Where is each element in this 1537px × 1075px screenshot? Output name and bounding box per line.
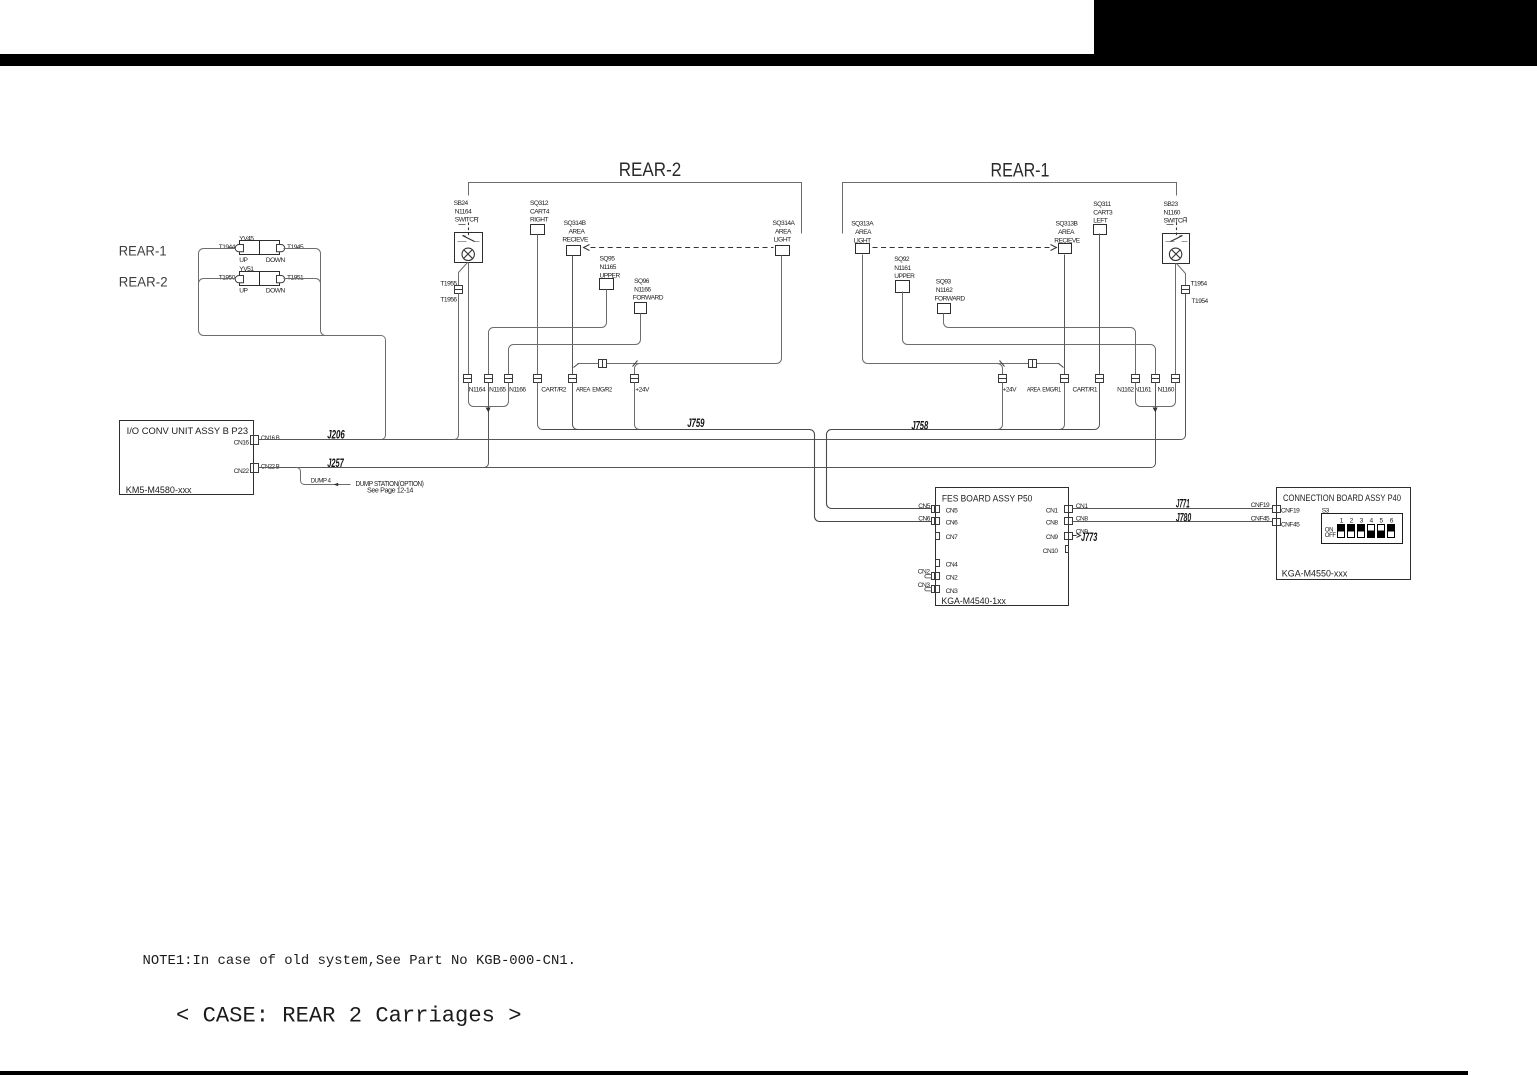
- wire SQ313A link to RECIEVE junction REAR-1: [863, 255, 1060, 364]
- wire AREA EMG/R2 to J759: [573, 383, 578, 430]
- svg-text:SQ92: SQ92: [894, 256, 910, 263]
- wire N1166 merge: [489, 383, 509, 407]
- I/O CONV UNIT ASSY B P23 box: [120, 421, 254, 495]
- wire SQ311 to CART/R1: [1099, 234, 1101, 376]
- connector +24V REAR-2: [631, 375, 639, 383]
- svg-text:CN7: CN7: [946, 534, 959, 541]
- svg-text:FORWARD: FORWARD: [935, 295, 966, 302]
- svg-text:SB24: SB24: [454, 200, 469, 207]
- svg-text:J773: J773: [1081, 530, 1098, 544]
- svg-text:CNF19: CNF19: [1281, 508, 1300, 515]
- solenoid valve YV51: [235, 271, 285, 286]
- svg-text:+24V: +24V: [1003, 386, 1018, 393]
- svg-text:CART/R2: CART/R2: [541, 386, 566, 393]
- svg-text:CN16: CN16: [234, 439, 250, 446]
- svg-text:AREA EMG/R2: AREA EMG/R2: [576, 386, 613, 393]
- svg-text:CN1: CN1: [1046, 507, 1059, 514]
- connector N1165: [485, 375, 493, 383]
- svg-text:UPPER: UPPER: [894, 273, 915, 280]
- connector N1166: [505, 375, 513, 383]
- sensor SQ96 box: [635, 303, 647, 314]
- wire T1951 join right rail: [284, 279, 321, 284]
- svg-text:T1954: T1954: [1191, 280, 1208, 287]
- svg-text:J759: J759: [687, 416, 705, 430]
- svg-text:LIGHT: LIGHT: [774, 237, 791, 244]
- dip switch S3 box: [1322, 514, 1403, 544]
- FES BOARD ASSY P50 box: [936, 488, 1069, 606]
- svg-text:CN10: CN10: [1043, 548, 1059, 555]
- svg-text:DUMP 4: DUMP 4: [311, 478, 332, 485]
- svg-text:< CASE: REAR 2 Carriages >: < CASE: REAR 2 Carriages >: [176, 1004, 522, 1029]
- svg-text:N1164: N1164: [455, 208, 472, 215]
- svg-text:SQ314B: SQ314B: [564, 220, 587, 227]
- connector N1160: [1172, 375, 1180, 383]
- wire SQ95 to N1165: [489, 290, 607, 376]
- svg-text:LEFT: LEFT: [1093, 218, 1108, 225]
- wire T1956 to J206: [454, 294, 459, 440]
- dip switch 4 (OFF): [1368, 525, 1375, 538]
- sensor SQ311 box: [1094, 225, 1107, 235]
- arrow merge REAR-1: [1153, 408, 1158, 413]
- svg-text:SQ96: SQ96: [634, 278, 650, 285]
- svg-text:CN6: CN6: [918, 516, 931, 523]
- stub arrow CN9: [1073, 534, 1081, 538]
- svg-text:N1166: N1166: [509, 386, 526, 393]
- sensor SQ93 box: [938, 304, 951, 314]
- connector CN8: [1065, 518, 1073, 525]
- svg-text:KGA-M4540-1xx: KGA-M4540-1xx: [941, 596, 1006, 606]
- svg-text:J758: J758: [911, 419, 928, 433]
- svg-text:YV45: YV45: [239, 235, 254, 242]
- wire SQ92 to N1161: [903, 292, 1156, 376]
- svg-text:CN3: CN3: [946, 588, 959, 595]
- dip switch 2 (ON): [1348, 525, 1355, 538]
- svg-text:DOWN: DOWN: [266, 288, 286, 295]
- svg-text:CN4: CN4: [946, 561, 959, 568]
- svg-text:N1160: N1160: [1164, 209, 1181, 216]
- switch-lamp SB24 box: [455, 233, 483, 263]
- wire SQ312 to CART/R2: [537, 235, 539, 376]
- connector N1162: [1132, 375, 1140, 383]
- svg-text:CART/R1: CART/R1: [1073, 386, 1098, 393]
- svg-text:NOTE1:In case of old system,Se: NOTE1:In case of old system,See Part No …: [143, 954, 577, 969]
- svg-text:See Page 12-14: See Page 12-14: [367, 488, 414, 495]
- svg-text:N1165: N1165: [600, 264, 617, 271]
- wire +24V to J758: [998, 383, 1003, 430]
- svg-text:N1162: N1162: [1117, 386, 1134, 393]
- svg-text:J771: J771: [1176, 497, 1190, 511]
- svg-text:SQ93: SQ93: [936, 278, 952, 285]
- connector CN7: [936, 533, 940, 540]
- svg-text:SQ314A: SQ314A: [773, 220, 796, 227]
- sensor SQ95 box: [600, 279, 614, 290]
- wire dump station branch: [297, 468, 351, 485]
- connector CN3: [932, 586, 940, 593]
- connector AREA EMG/R2: [569, 375, 577, 383]
- dashed optical link REAR-1: [873, 247, 1051, 249]
- connector CART/R2: [534, 375, 542, 383]
- sensor SQ92 box: [896, 281, 910, 293]
- connector AREA EMG/R1: [1061, 375, 1069, 383]
- arrow link end REAR-1: [1059, 364, 1064, 368]
- svg-text:CN1: CN1: [1076, 503, 1089, 510]
- sensor SQ313B box: [1059, 244, 1072, 254]
- svg-text:AREA: AREA: [569, 228, 586, 235]
- svg-text:AREA: AREA: [855, 229, 872, 236]
- sensor SQ312 box: [531, 225, 545, 235]
- svg-text:SB23: SB23: [1164, 201, 1179, 208]
- svg-text:N1166: N1166: [634, 286, 651, 293]
- wire N1162 merge: [1136, 383, 1156, 407]
- svg-text:AREA EMG/R1: AREA EMG/R1: [1027, 386, 1061, 393]
- arrow merge REAR-2: [486, 408, 491, 413]
- svg-text:N1162: N1162: [936, 287, 953, 294]
- dip switch 3 (ON): [1358, 525, 1365, 538]
- dip numbers 1-6: [1340, 518, 1394, 525]
- dip switch 1 (ON): [1338, 525, 1345, 538]
- svg-text:YV51: YV51: [239, 266, 254, 273]
- connector CN2: [932, 573, 940, 580]
- switch SB23 contacts: [1166, 241, 1188, 243]
- connector CN22: [251, 464, 259, 473]
- svg-text:CN6: CN6: [946, 520, 959, 527]
- stub plug CN2: [925, 575, 932, 578]
- svg-text:CART4: CART4: [530, 208, 550, 215]
- svg-text:UP: UP: [239, 288, 248, 295]
- svg-text:I/O CONV UNIT ASSY B P23: I/O CONV UNIT ASSY B P23: [127, 426, 249, 436]
- svg-text:+24V: +24V: [635, 386, 650, 393]
- wire N1164 merge: [469, 383, 489, 407]
- svg-text:T1956: T1956: [440, 297, 457, 304]
- connector CN5: [932, 506, 940, 513]
- dip switch 6 (ON): [1388, 525, 1395, 538]
- wire +24V drop REAR-1: [998, 364, 1003, 376]
- svg-text:OFF: OFF: [1325, 532, 1336, 539]
- dip switch 5 (OFF): [1378, 525, 1385, 538]
- connector CART/R1: [1096, 375, 1104, 383]
- svg-text:CONNECTION BOARD ASSY P40: CONNECTION BOARD ASSY P40: [1283, 493, 1401, 503]
- arrow +24V drop REAR-1: [1000, 361, 1005, 367]
- svg-text:CN9: CN9: [1046, 534, 1059, 541]
- arrow link end REAR-2: [574, 364, 579, 368]
- arrow optical link REAR-1: [1051, 245, 1057, 251]
- svg-text:KGA-M4550-xxx: KGA-M4550-xxx: [1282, 569, 1348, 579]
- svg-text:SWITCH: SWITCH: [1164, 218, 1188, 225]
- svg-text:CN22: CN22: [234, 468, 250, 475]
- svg-text:CNF45: CNF45: [1251, 515, 1270, 522]
- switch SB23 leader marks: [1167, 218, 1187, 225]
- wire T1950 join left rail: [199, 279, 236, 284]
- arrow +24V drop REAR-2: [633, 361, 638, 367]
- svg-text:T1944: T1944: [219, 244, 236, 251]
- svg-text:T1950: T1950: [219, 274, 236, 281]
- svg-text:KM5-M4580-xxx: KM5-M4580-xxx: [126, 485, 192, 495]
- wire +24V to J759: [635, 383, 640, 430]
- connector pair T1955/T1956: [455, 286, 463, 294]
- sensor SQ314B box: [567, 246, 581, 256]
- wire SB23 to T1954: [1177, 264, 1186, 286]
- bracket REAR-1: [843, 183, 1177, 234]
- svg-text:REAR-2: REAR-2: [619, 159, 682, 181]
- svg-text:REAR-2: REAR-2: [119, 275, 168, 290]
- switch SB24 blade: [463, 236, 475, 242]
- svg-text:RECIEVE: RECIEVE: [562, 237, 589, 244]
- switch SB23 control dashed line: [1176, 223, 1178, 238]
- svg-text:SQ312: SQ312: [530, 200, 549, 207]
- arrow optical link REAR-2: [584, 245, 590, 251]
- svg-text:SQ311: SQ311: [1093, 201, 1111, 208]
- connector CN16: [251, 436, 259, 445]
- wire N1161 group to J257 end: [1155, 383, 1157, 412]
- lamp SB23: [1169, 248, 1181, 260]
- connector N1161: [1152, 375, 1160, 383]
- wire J771 run: [1073, 508, 1273, 510]
- connector +24V REAR-1: [999, 375, 1007, 383]
- svg-text:DOWN: DOWN: [266, 257, 286, 264]
- arrow dump branch: [334, 483, 339, 487]
- footer black bar: [0, 1071, 1468, 1075]
- svg-text:CNF45: CNF45: [1281, 521, 1300, 528]
- svg-text:FORWARD: FORWARD: [633, 295, 664, 302]
- wire SQ314B to AREA EMG/R2: [572, 256, 574, 376]
- wire N1165 group to J257: [484, 383, 489, 468]
- switch SB23 blade: [1171, 236, 1183, 242]
- svg-text:CN5: CN5: [946, 507, 959, 514]
- wire SQ313B to AREA EMG/R1: [1064, 255, 1066, 376]
- switch-lamp SB23 box: [1163, 234, 1190, 264]
- wire SQ314A link to RECIEVE junction: [578, 256, 782, 364]
- wire SQ96 to N1166: [509, 314, 641, 376]
- wire SB24 to T1955: [459, 263, 468, 286]
- svg-text:REAR-1: REAR-1: [119, 244, 167, 259]
- connector pair T1954/T1954: [1182, 286, 1190, 294]
- connector CN9: [1065, 533, 1073, 540]
- svg-text:J257: J257: [327, 456, 344, 470]
- connector CNF19: [1273, 506, 1281, 513]
- header black bar: [0, 54, 1537, 66]
- wire CART/R2 to J759: [538, 383, 543, 430]
- svg-text:T1945: T1945: [287, 244, 304, 251]
- svg-text:AREA: AREA: [1058, 229, 1075, 236]
- svg-text:N1165: N1165: [489, 386, 506, 393]
- svg-text:UP: UP: [239, 257, 248, 264]
- lamp SB24: [462, 248, 474, 260]
- dashed optical link REAR-2: [591, 247, 774, 249]
- svg-text:FES BOARD ASSY P50: FES BOARD ASSY P50: [942, 493, 1033, 503]
- wire CART/R1 to J758: [1095, 383, 1100, 430]
- svg-text:CN16 B: CN16 B: [261, 435, 281, 442]
- wire SB24 to N1164: [468, 263, 470, 376]
- wire AREA EMG/R1 to J758: [1060, 383, 1065, 430]
- wire N1160 merge: [1156, 383, 1176, 407]
- stub plug CN3: [925, 588, 932, 591]
- svg-text:SQ313B: SQ313B: [1056, 220, 1079, 227]
- svg-text:J780: J780: [1176, 511, 1192, 525]
- wire SB23 to N1160: [1175, 264, 1177, 376]
- svg-text:CN2: CN2: [946, 575, 959, 582]
- cable J758 run to CN5: [827, 430, 1095, 509]
- wire J257 run: [259, 412, 1156, 468]
- svg-text:N1160: N1160: [1157, 386, 1174, 393]
- svg-text:T1955: T1955: [440, 280, 457, 287]
- switch SB24 leader marks: [459, 218, 479, 225]
- solenoid valve YV45: [235, 241, 285, 256]
- svg-text:SQ313A: SQ313A: [851, 220, 874, 227]
- connector pair inline link REAR-1: [1029, 360, 1037, 368]
- svg-text:N1164: N1164: [469, 386, 486, 393]
- svg-text:AREA: AREA: [775, 228, 792, 235]
- wire +24V drop REAR-2: [635, 364, 640, 376]
- switch SB24 control dashed line: [468, 223, 470, 238]
- connector N1164: [464, 375, 472, 383]
- svg-text:CART3: CART3: [1093, 209, 1113, 216]
- cable J759 run to CN6: [543, 430, 932, 522]
- connector CN6: [932, 518, 940, 525]
- svg-text:CN22 B: CN22 B: [261, 463, 281, 470]
- svg-text:T1951: T1951: [287, 274, 304, 281]
- wire SQ93 to N1162: [944, 314, 1136, 376]
- svg-text:CN8: CN8: [1046, 520, 1059, 527]
- light SQ313A box: [856, 244, 870, 254]
- svg-text:J206: J206: [327, 427, 345, 441]
- connector CN4: [936, 560, 940, 567]
- light SQ314A box: [776, 246, 790, 256]
- bracket REAR-2: [469, 183, 802, 234]
- connector pair inline link REAR-2: [599, 360, 607, 368]
- wire J206 run: [259, 294, 1186, 440]
- svg-text:CNF19: CNF19: [1251, 502, 1270, 509]
- wire T1944 left rail to J206: [199, 249, 386, 440]
- svg-text:SQ95: SQ95: [600, 256, 616, 263]
- svg-text:N1161: N1161: [1135, 386, 1152, 393]
- wire J780 run: [1073, 521, 1273, 523]
- switch SB24 contacts: [458, 241, 480, 243]
- svg-text:T1954: T1954: [1192, 298, 1209, 305]
- CONNECTION BOARD ASSY P40 box: [1277, 488, 1411, 580]
- connector CNF45: [1273, 519, 1281, 526]
- svg-text:RIGHT: RIGHT: [530, 217, 548, 224]
- svg-text:REAR-1: REAR-1: [991, 160, 1050, 182]
- connector CN10: [1066, 546, 1069, 553]
- connector CN1: [1065, 506, 1073, 513]
- wire T1945 right rail: [284, 249, 326, 336]
- svg-text:N1161: N1161: [894, 265, 911, 272]
- svg-text:CN5: CN5: [918, 503, 931, 510]
- header black block top-right: [1094, 0, 1537, 54]
